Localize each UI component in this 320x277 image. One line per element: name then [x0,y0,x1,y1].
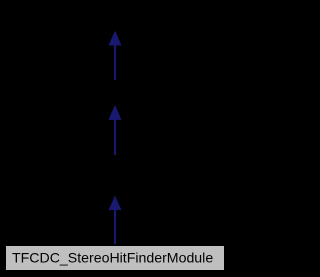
arrowhead 2 [109,105,122,120]
arrow shaft 3 [114,210,116,244]
node box TFCDC_StereoHitFinderModule (grey75 fill, black border) [6,246,225,271]
arrowhead 3 [109,196,122,211]
inheritance arrow 1 (topmost, midnightblue, pointing up) [109,31,122,80]
svg-text:TFCDC_StereoHitFinderModule: TFCDC_StereoHitFinderModule [12,249,213,265]
inheritance arrow 2 (middle, midnightblue, pointing up) [109,105,122,155]
inheritance arrow 3 (bottom, midnightblue, pointing up) [109,196,122,244]
arrowhead 1 [109,31,122,46]
arrow shaft 2 [114,120,116,156]
arrow shaft 1 [114,45,116,80]
